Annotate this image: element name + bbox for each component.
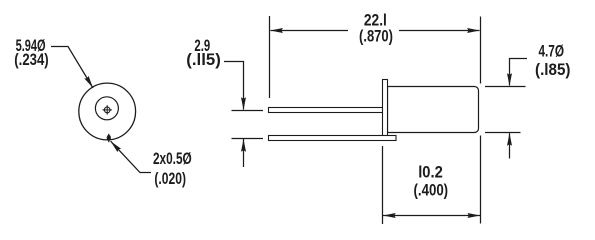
svg-text:(.ll5): (.ll5) bbox=[186, 51, 221, 69]
label 5.94 dia bbox=[14, 37, 48, 69]
dimension 10.2 text bbox=[414, 164, 449, 200]
crystal can body bbox=[388, 87, 479, 133]
dimension 22.1 / 10.2 extension line right bbox=[480, 17, 482, 224]
svg-text:(.400): (.400) bbox=[414, 182, 449, 200]
dimension 10.2 line and arrows bbox=[383, 213, 480, 218]
top lead (side view) bbox=[269, 108, 384, 113]
lead end (filled dot on circle bottom) bbox=[107, 134, 111, 142]
bottom lead (side view) bbox=[269, 136, 397, 141]
dimension 2.9 text bbox=[186, 37, 221, 69]
dimension 4.7 leader and arrows bbox=[507, 59, 527, 159]
svg-text:(.l85): (.l85) bbox=[535, 61, 571, 79]
dimension 4.7 text bbox=[535, 43, 571, 80]
dimension 22.1 text bbox=[359, 12, 393, 46]
svg-text:(.870): (.870) bbox=[359, 28, 393, 46]
svg-text:2x0.5Ø: 2x0.5Ø bbox=[153, 150, 192, 168]
svg-text:l0.2: l0.2 bbox=[418, 164, 443, 182]
dimension 22.1 extension line left bbox=[269, 16, 271, 98]
leader for 5.94 bbox=[51, 47, 95, 90]
dimension 22.1 line and arrows bbox=[270, 28, 480, 33]
dimension 2.9 extension lines bbox=[232, 111, 264, 139]
svg-text:(.020): (.020) bbox=[154, 170, 186, 188]
dimension 10.2 extension line left bbox=[382, 146, 384, 224]
dimension 2.9 leader and arrows bbox=[224, 62, 246, 168]
end view outer circle (can body) bbox=[79, 83, 136, 140]
svg-text:(.234): (.234) bbox=[14, 51, 48, 69]
end view inner circle bbox=[95, 97, 118, 120]
svg-text:4.7Ø: 4.7Ø bbox=[539, 43, 565, 61]
center mark crosshair bbox=[103, 105, 112, 114]
dimension 4.7 extension lines bbox=[485, 87, 526, 133]
leader for 2x0.5 bbox=[109, 139, 151, 172]
can flange bbox=[383, 80, 388, 139]
label 2x0.5 dia bbox=[153, 150, 192, 188]
